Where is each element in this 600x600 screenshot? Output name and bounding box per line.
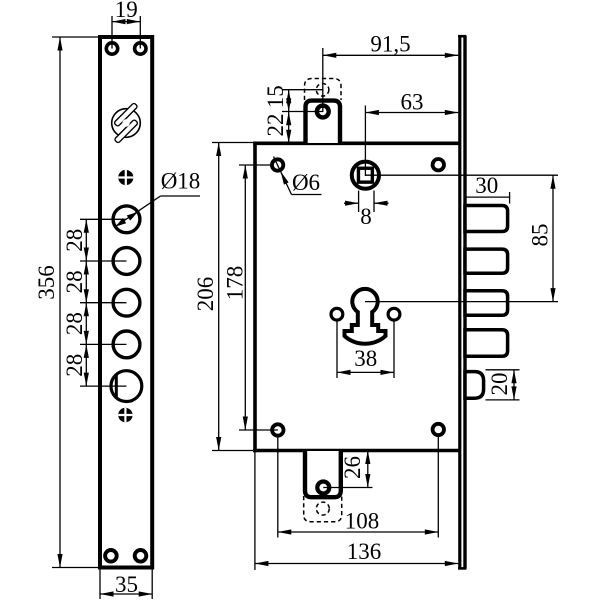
hole Ø18 #4: [113, 331, 140, 358]
hole Ø18 #1: [113, 206, 140, 233]
lock case left edge: [253, 142, 257, 453]
svg-text:19: 19: [115, 0, 138, 22]
dimension 206: [193, 143, 253, 451]
deadbolt 4: [465, 330, 508, 357]
screw hole bottom-right: [135, 550, 147, 562]
follower square: [358, 168, 372, 182]
keyhole side hole right: [388, 308, 400, 320]
leader Ø18: [114, 169, 201, 230]
svg-text:28: 28: [62, 354, 87, 377]
svg-text:38: 38: [354, 346, 377, 371]
dimension 136: [255, 452, 458, 570]
top tab hole: [317, 106, 329, 118]
svg-text:15: 15: [263, 85, 288, 108]
centerline hole 1: [80, 218, 127, 220]
svg-text:30: 30: [475, 173, 498, 198]
svg-text:63: 63: [401, 90, 424, 115]
hole Ø18 #2: [113, 248, 140, 275]
screw hole top-right: [135, 43, 146, 54]
faceplate side view: [458, 36, 466, 569]
centerline hole 3: [80, 302, 127, 304]
svg-text:28: 28: [62, 229, 87, 252]
svg-text:Ø6: Ø6: [292, 170, 320, 195]
brand logo: [106, 103, 147, 144]
dimension 19: [112, 0, 140, 49]
hole Ø18 #3: [113, 289, 140, 316]
case hole top-left Ø6: [272, 159, 283, 170]
svg-text:108: 108: [345, 509, 380, 534]
dimension 356: [34, 37, 98, 568]
cylinder hole bottom: [111, 371, 142, 402]
lock case bottom edge: [253, 449, 459, 453]
follower ring: [352, 162, 379, 189]
dimension 63: [365, 90, 458, 177]
bottom tab: [305, 451, 341, 497]
centerline hole 4: [80, 343, 127, 345]
svg-text:8: 8: [360, 204, 372, 229]
screw hole top-left: [106, 43, 117, 54]
leader Ø6: [274, 157, 322, 196]
svg-text:26: 26: [340, 456, 365, 479]
phillips screw upper: [118, 170, 133, 185]
svg-text:20: 20: [487, 373, 512, 396]
keyhole: [345, 289, 386, 344]
case hole bottom-right: [433, 424, 444, 435]
dimension chain 28: [62, 219, 89, 386]
lock case top edge: [253, 142, 459, 146]
dashed alternate hole: [316, 84, 329, 97]
svg-text:91,5: 91,5: [370, 32, 410, 57]
deadbolt 3: [465, 291, 508, 316]
dimension 91,5: [323, 32, 459, 113]
svg-text:35: 35: [115, 572, 138, 597]
svg-text:22: 22: [263, 114, 288, 137]
svg-text:28: 28: [62, 270, 87, 293]
deadbolt 1: [465, 206, 508, 232]
keyhole side hole left: [331, 308, 343, 320]
faceplate front view outline: [100, 37, 152, 568]
svg-text:28: 28: [62, 312, 87, 335]
svg-text:136: 136: [347, 539, 382, 564]
svg-text:178: 178: [223, 266, 248, 301]
centerline hole 2: [80, 260, 127, 262]
dimension 85: [528, 175, 556, 301]
dimension 30: [465, 173, 510, 204]
latch bolt: [465, 372, 484, 399]
deadbolt 2: [465, 249, 508, 273]
centerline hole 5: [80, 385, 126, 387]
case hole top-right: [433, 159, 444, 170]
dimension 20: [486, 370, 520, 400]
dimension 22 15: [263, 85, 324, 143]
top tab: [306, 101, 341, 143]
dashed alternate bottom tab: [304, 496, 342, 522]
dashed alternate tab: [305, 79, 342, 101]
svg-text:Ø18: Ø18: [161, 169, 201, 194]
svg-text:85: 85: [528, 224, 553, 247]
dashed alternate bottom hole: [316, 502, 329, 515]
case hole bottom-left: [272, 424, 283, 435]
dimension 108: [278, 434, 439, 538]
dimension 35: [100, 570, 152, 600]
follower centerline to 85 dim: [365, 174, 558, 176]
cylinder hole chord: [115, 375, 118, 398]
dimension 8: [344, 191, 389, 230]
keyhole centerline to 85 dim: [365, 301, 558, 303]
svg-text:206: 206: [193, 277, 218, 312]
phillips screw lower: [118, 408, 132, 422]
screw hole bottom-left: [105, 550, 117, 562]
dimension 38: [337, 321, 394, 378]
dimension 178: [223, 165, 278, 430]
svg-text:356: 356: [34, 265, 59, 300]
bottom tab hole: [317, 482, 329, 494]
dimension 26: [323, 451, 372, 488]
